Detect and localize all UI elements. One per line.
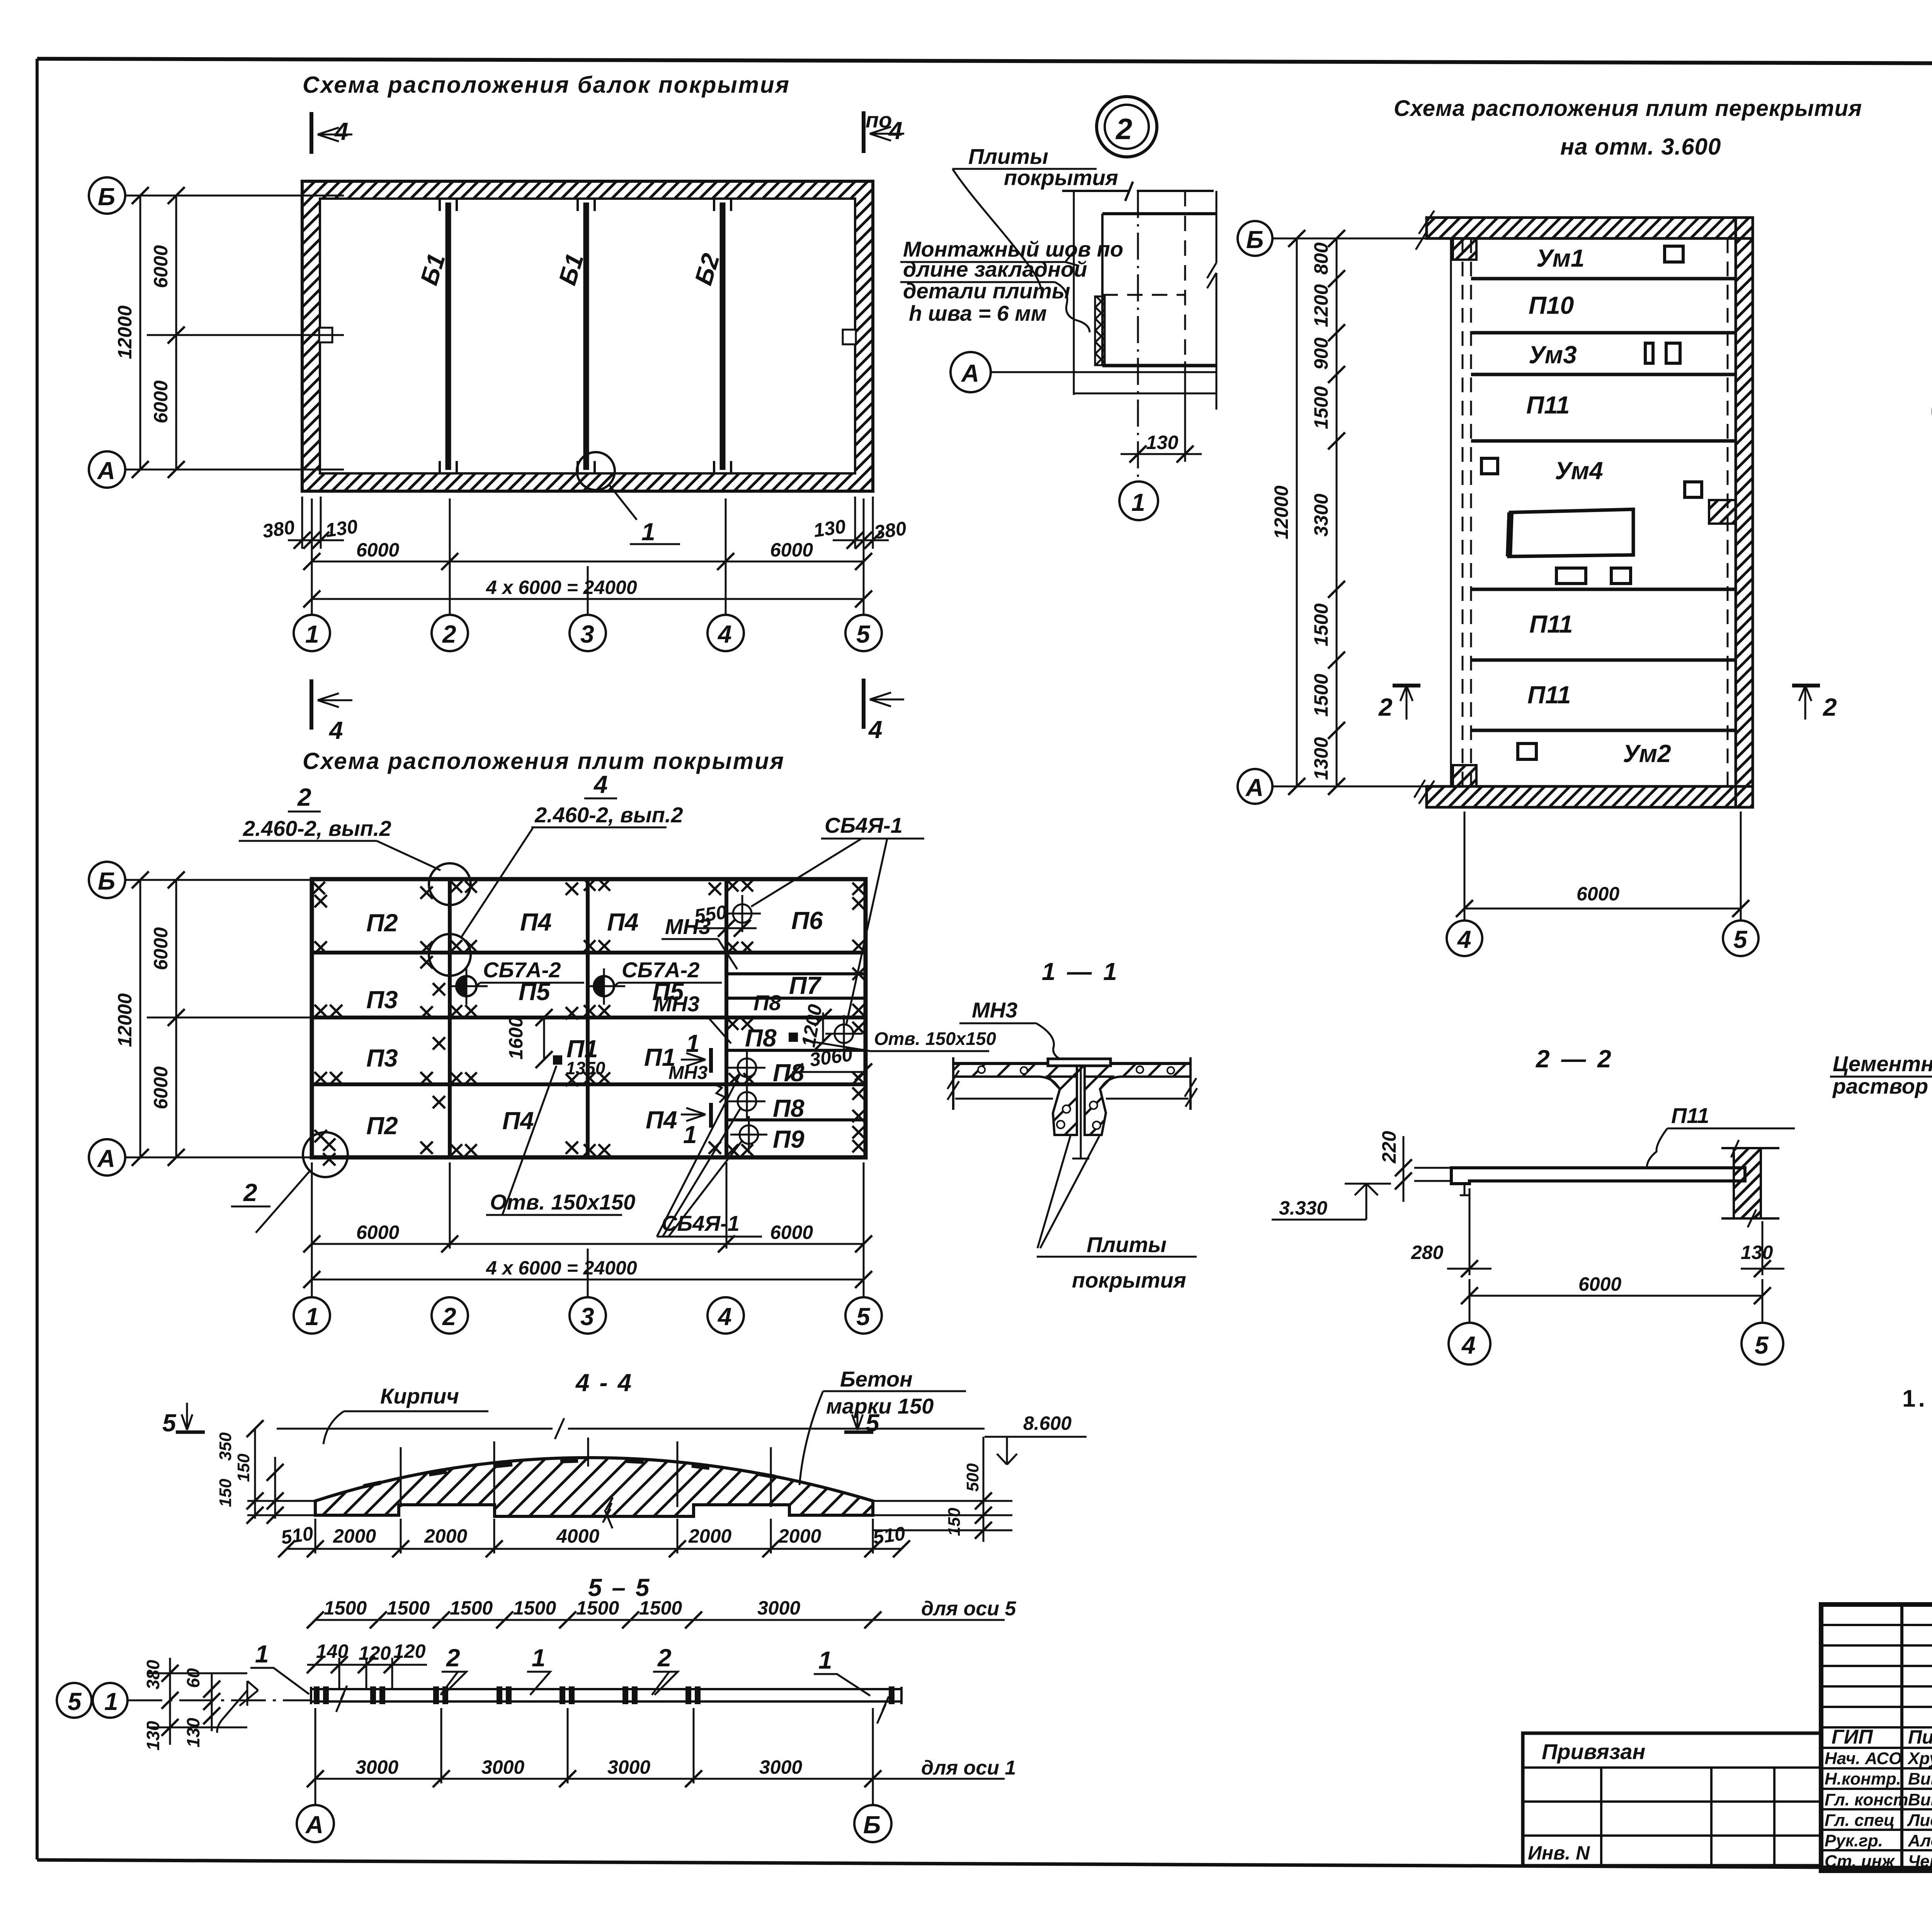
svg-text:3000: 3000 — [607, 1756, 650, 1778]
svg-text:h шва = 6 мм: h шва = 6 мм — [909, 301, 1047, 325]
svg-text:1: 1 — [686, 1029, 700, 1057]
svg-text:150: 150 — [945, 1507, 964, 1536]
svg-text:3000: 3000 — [757, 1597, 800, 1619]
svg-text:5: 5 — [1733, 926, 1748, 953]
svg-text:3: 3 — [580, 620, 594, 648]
svg-text:П9: П9 — [773, 1125, 804, 1153]
svg-text:П2: П2 — [366, 909, 398, 937]
svg-text:6000: 6000 — [1578, 1273, 1621, 1295]
svg-text:1: 1 — [255, 1640, 269, 1668]
svg-text:П11: П11 — [1526, 391, 1570, 419]
svg-text:1500: 1500 — [1310, 386, 1332, 429]
svg-text:5: 5 — [1755, 1331, 1769, 1359]
svg-text:1500: 1500 — [450, 1597, 493, 1619]
svg-text:1500: 1500 — [639, 1597, 682, 1619]
svg-text:6000: 6000 — [770, 1222, 813, 1243]
svg-text:3000: 3000 — [355, 1756, 398, 1778]
svg-text:380: 380 — [261, 516, 296, 542]
svg-text:Цементный: Цементный — [1833, 1051, 1932, 1076]
svg-text:5: 5 — [68, 1688, 82, 1715]
svg-text:4: 4 — [1461, 1331, 1476, 1359]
svg-text:2: 2 — [446, 1644, 460, 1672]
svg-text:2.460-2, вып.2: 2.460-2, вып.2 — [243, 816, 391, 840]
svg-text:П11: П11 — [1529, 610, 1573, 638]
svg-text:А: А — [1245, 774, 1264, 801]
svg-text:2000: 2000 — [688, 1525, 731, 1547]
svg-text:6000: 6000 — [356, 1222, 399, 1243]
svg-text:Хрупало: Хрупало — [1907, 1749, 1932, 1768]
svg-text:длине закладной: длине закладной — [903, 257, 1087, 281]
svg-text:1: 1 — [305, 620, 319, 648]
svg-text:марки 150: марки 150 — [826, 1394, 934, 1418]
svg-text:П10: П10 — [1529, 291, 1574, 319]
svg-text:П11: П11 — [1671, 1103, 1709, 1128]
svg-text:Отв. 150х150: Отв. 150х150 — [874, 1028, 996, 1049]
svg-text:3.330: 3.330 — [1279, 1197, 1327, 1219]
svg-text:4: 4 — [888, 117, 903, 145]
svg-text:4: 4 — [868, 716, 883, 744]
svg-text:550: 550 — [693, 901, 728, 927]
svg-text:А: А — [961, 359, 979, 387]
svg-text:3: 3 — [580, 1303, 594, 1331]
svg-text:Лисичкин: Лисичкин — [1907, 1811, 1932, 1830]
svg-text:П4: П4 — [520, 908, 552, 936]
svg-text:П4: П4 — [607, 908, 639, 936]
svg-text:П2: П2 — [366, 1112, 398, 1140]
svg-text:510: 510 — [280, 1523, 315, 1548]
svg-text:1: 1 — [305, 1303, 319, 1331]
svg-text:4 х 6000 = 24000: 4 х 6000 = 24000 — [486, 577, 637, 598]
svg-text:3000: 3000 — [759, 1756, 802, 1778]
svg-text:1: 1 — [532, 1644, 546, 1672]
svg-text:500: 500 — [963, 1463, 982, 1492]
svg-text:280: 280 — [1411, 1242, 1444, 1263]
svg-text:130: 130 — [1146, 432, 1179, 453]
svg-text:900: 900 — [1310, 337, 1332, 370]
svg-text:4: 4 — [717, 620, 732, 648]
svg-text:350: 350 — [216, 1432, 235, 1461]
svg-text:Пивторак: Пивторак — [1908, 1726, 1932, 1748]
svg-text:4 х 6000 = 24000: 4 х 6000 = 24000 — [486, 1257, 637, 1279]
svg-text:2: 2 — [442, 620, 456, 648]
svg-text:Схема расположения плит: Схема расположения плит покрытия — [303, 748, 785, 774]
svg-text:Плиты: Плиты — [1087, 1232, 1167, 1257]
svg-text:380: 380 — [143, 1660, 163, 1690]
svg-text:130: 130 — [812, 516, 847, 541]
svg-text:П11: П11 — [1527, 681, 1571, 709]
svg-text:510: 510 — [872, 1523, 907, 1548]
svg-text:П4: П4 — [502, 1107, 534, 1135]
svg-text:12000: 12000 — [114, 993, 136, 1047]
svg-text:2000: 2000 — [778, 1525, 821, 1547]
svg-text:Кирпич: Кирпич — [380, 1384, 459, 1408]
svg-text:130: 130 — [143, 1721, 163, 1751]
svg-text:П3: П3 — [366, 1044, 398, 1072]
svg-text:Плиты: Плиты — [968, 144, 1048, 168]
svg-text:1600: 1600 — [505, 1017, 527, 1060]
svg-text:1300: 1300 — [1310, 737, 1332, 780]
svg-text:5: 5 — [856, 620, 871, 648]
svg-text:Нач. АСО: Нач. АСО — [1825, 1749, 1902, 1768]
svg-text:5: 5 — [162, 1409, 177, 1437]
svg-text:4: 4 — [593, 771, 608, 798]
svg-text:220: 220 — [1378, 1131, 1400, 1164]
svg-text:П7: П7 — [789, 972, 822, 999]
svg-text:А: А — [305, 1811, 323, 1839]
svg-text:800: 800 — [1310, 242, 1332, 275]
svg-text:150: 150 — [234, 1453, 253, 1482]
svg-text:1500: 1500 — [576, 1597, 619, 1619]
svg-text:для оси 5: для оси 5 — [921, 1598, 1016, 1620]
svg-text:1500: 1500 — [387, 1597, 430, 1619]
svg-text:МН3: МН3 — [972, 998, 1017, 1022]
svg-text:А: А — [97, 1145, 115, 1172]
svg-text:П8: П8 — [753, 990, 781, 1015]
svg-text:2: 2 — [243, 1179, 257, 1206]
svg-text:130: 130 — [1741, 1242, 1773, 1263]
svg-text:1500: 1500 — [1310, 603, 1332, 646]
svg-text:ГИП: ГИП — [1832, 1726, 1873, 1748]
svg-text:Ум4: Ум4 — [1555, 457, 1603, 485]
svg-text:4: 4 — [717, 1303, 732, 1331]
svg-text:детали плиты: детали плиты — [903, 279, 1070, 303]
svg-text:4000: 4000 — [556, 1525, 599, 1547]
svg-text:3300: 3300 — [1310, 493, 1332, 536]
svg-text:1. Данный лист смотреть с: 1. Данный лист смотреть с листом 6 . — [1902, 1385, 1932, 1412]
svg-text:12000: 12000 — [114, 305, 136, 359]
svg-text:120: 120 — [359, 1642, 391, 1664]
svg-text:на отм. 3.600: на отм. 3.600 — [1560, 134, 1721, 160]
svg-text:6000: 6000 — [150, 927, 172, 970]
svg-text:2: 2 — [1823, 693, 1837, 721]
svg-text:6000: 6000 — [356, 539, 399, 561]
svg-text:1 — 1: 1 — 1 — [1042, 958, 1119, 985]
svg-text:3000: 3000 — [481, 1756, 524, 1778]
svg-text:покрытия: покрытия — [1072, 1268, 1186, 1292]
svg-text:А: А — [97, 457, 115, 485]
svg-text:Ум2: Ум2 — [1623, 740, 1671, 767]
svg-text:1: 1 — [683, 1121, 697, 1148]
svg-text:СБ7А-2: СБ7А-2 — [622, 958, 699, 982]
svg-text:Алехова: Алехова — [1908, 1831, 1932, 1850]
svg-text:для оси 1: для оси 1 — [921, 1757, 1016, 1779]
svg-text:Винклер: Винклер — [1908, 1790, 1932, 1809]
svg-text:1: 1 — [818, 1646, 832, 1674]
svg-text:2: 2 — [1115, 113, 1132, 146]
svg-text:Привязан: Привязан — [1542, 1739, 1645, 1764]
svg-text:П8: П8 — [745, 1024, 777, 1052]
svg-text:П8: П8 — [773, 1094, 804, 1122]
svg-text:МН3: МН3 — [654, 992, 699, 1016]
svg-text:6000: 6000 — [770, 539, 813, 561]
svg-text:1: 1 — [104, 1688, 118, 1715]
svg-text:Инв. N: Инв. N — [1528, 1842, 1590, 1864]
svg-text:2000: 2000 — [424, 1525, 467, 1547]
svg-text:Гл. конст.: Гл. конст. — [1825, 1790, 1913, 1809]
svg-text:П3: П3 — [366, 986, 398, 1014]
svg-text:4: 4 — [328, 716, 343, 744]
svg-text:Черкасова: Черкасова — [1908, 1852, 1932, 1871]
svg-text:по: по — [866, 108, 892, 132]
svg-text:4: 4 — [1457, 926, 1471, 953]
svg-text:2: 2 — [442, 1303, 456, 1331]
svg-text:4: 4 — [334, 117, 349, 145]
svg-text:6000: 6000 — [150, 380, 172, 423]
svg-text:380: 380 — [873, 517, 908, 543]
svg-text:П4: П4 — [646, 1106, 677, 1134]
svg-text:1500: 1500 — [513, 1597, 556, 1619]
svg-text:СБ4Я-1: СБ4Я-1 — [825, 813, 903, 837]
svg-text:6000: 6000 — [150, 1066, 172, 1109]
svg-text:2: 2 — [657, 1644, 672, 1672]
svg-text:Ум3: Ум3 — [1529, 341, 1577, 369]
svg-text:130: 130 — [324, 516, 359, 541]
svg-text:1: 1 — [641, 518, 655, 546]
svg-text:1500: 1500 — [324, 1597, 367, 1619]
svg-text:СБ7А-2: СБ7А-2 — [483, 958, 561, 982]
svg-text:130: 130 — [183, 1718, 203, 1747]
svg-text:60: 60 — [183, 1668, 203, 1688]
svg-text:Схема расположения балок: Схема расположения балок покрытия — [303, 72, 790, 98]
svg-text:2: 2 — [1378, 693, 1393, 721]
svg-text:2.460-2, вып.2: 2.460-2, вып.2 — [534, 803, 683, 827]
svg-text:Схема расположения плит пе: Схема расположения плит перекрытия — [1394, 96, 1862, 121]
svg-text:Рук.гр.: Рук.гр. — [1825, 1831, 1883, 1850]
svg-text:Гл. спец: Гл. спец — [1825, 1811, 1895, 1830]
svg-text:Отв. 150х150: Отв. 150х150 — [490, 1190, 635, 1214]
svg-text:2 — 2: 2 — 2 — [1536, 1045, 1614, 1073]
svg-text:5: 5 — [866, 1409, 880, 1437]
svg-text:6000: 6000 — [1577, 883, 1619, 905]
svg-text:1: 1 — [1131, 488, 1145, 516]
svg-text:Винклер: Винклер — [1908, 1769, 1932, 1788]
svg-text:1200: 1200 — [1310, 284, 1332, 327]
svg-text:Бетон: Бетон — [840, 1367, 913, 1391]
svg-text:12000: 12000 — [1270, 485, 1292, 539]
svg-text:1500: 1500 — [1310, 674, 1332, 716]
svg-text:Б: Б — [98, 183, 115, 211]
svg-text:Ум1: Ум1 — [1536, 244, 1585, 272]
svg-text:4 - 4: 4 - 4 — [575, 1369, 633, 1397]
svg-text:5: 5 — [856, 1303, 871, 1331]
svg-text:2: 2 — [297, 783, 311, 811]
svg-text:8.600: 8.600 — [1023, 1412, 1071, 1434]
svg-text:Ст. инж: Ст. инж — [1825, 1852, 1895, 1871]
svg-text:Б: Б — [863, 1811, 881, 1839]
svg-text:Б: Б — [1246, 226, 1264, 254]
svg-text:Б: Б — [98, 867, 115, 895]
svg-text:2000: 2000 — [333, 1525, 376, 1547]
svg-text:150: 150 — [216, 1479, 235, 1507]
svg-text:6000: 6000 — [150, 245, 172, 288]
svg-text:Н.контр.: Н.контр. — [1825, 1769, 1901, 1788]
svg-text:П6: П6 — [791, 907, 823, 934]
